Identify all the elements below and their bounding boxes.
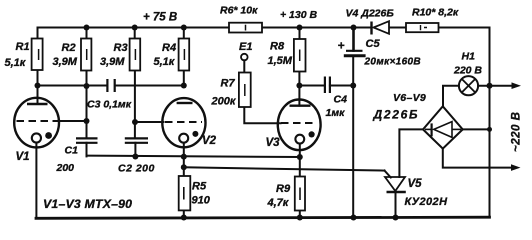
svg-text:Е1: Е1 <box>239 41 252 53</box>
svg-text:Н1: Н1 <box>462 51 476 63</box>
svg-text:4,7к: 4,7к <box>267 197 290 209</box>
wire bridge top to lamp corner <box>443 86 459 107</box>
svg-text:R10* 8,2к: R10* 8,2к <box>412 7 459 19</box>
wire bridge bottom to mains arrow lower <box>443 149 512 168</box>
svg-text:КУ202Н: КУ202Н <box>405 196 449 208</box>
wire R4 top stub <box>183 28 185 39</box>
svg-text:5,1к: 5,1к <box>154 56 176 68</box>
wire R8 top stub <box>299 28 301 40</box>
wire line1 cathode bus <box>87 156 300 157</box>
svg-text:R5: R5 <box>192 181 207 193</box>
wire R5 bottom stub <box>183 210 185 217</box>
wire mid grid bus y=85.5 <box>38 85 184 87</box>
wire R2 bottom lead down to C1 <box>86 71 88 139</box>
tube V2 <box>162 98 205 147</box>
svg-text:3,9М: 3,9М <box>100 56 125 68</box>
svg-text:+ 130 В: + 130 В <box>280 9 317 21</box>
lamp H1 <box>459 76 478 95</box>
svg-text:1,5М: 1,5М <box>268 55 293 67</box>
diode V4 <box>372 21 390 34</box>
diode bridge V6-V9 <box>423 106 463 148</box>
wire C5 bottom line down to rail <box>352 56 354 218</box>
resistor R7 <box>239 73 251 108</box>
wire C1 bottom stub <box>86 143 88 157</box>
resistor R4 <box>179 39 190 71</box>
wire V3 anode stub <box>298 86 300 106</box>
thyristor V5 <box>385 177 406 192</box>
wire V5 gate diagonal <box>385 171 391 178</box>
svg-text:20мк×160В: 20мк×160В <box>364 57 422 68</box>
wire V2 grid lead left <box>135 121 164 123</box>
tube V1 <box>14 98 59 148</box>
svg-text:С3 0,1мк: С3 0,1мк <box>87 99 132 111</box>
mains arrow upper <box>512 82 522 89</box>
svg-text:5,1к: 5,1к <box>5 57 27 69</box>
svg-text:V6–V9: V6–V9 <box>393 92 426 104</box>
svg-text:С5: С5 <box>366 38 381 50</box>
wire C2 bottom stub <box>134 143 136 157</box>
svg-text:V1–V3 МТХ–90: V1–V3 МТХ–90 <box>43 197 132 211</box>
wire V1 grid lead right <box>58 120 87 122</box>
svg-text:V5: V5 <box>408 178 423 190</box>
wire right vertical drop from R10 to bottom rail <box>489 28 491 218</box>
svg-text:R1: R1 <box>16 41 30 53</box>
svg-text:V1: V1 <box>16 151 30 163</box>
wire anode junction to C4 <box>299 85 324 87</box>
svg-text:V2: V2 <box>202 135 217 147</box>
resistor R1 <box>32 39 43 71</box>
resistor R5 <box>179 176 191 210</box>
svg-text:R8: R8 <box>270 41 285 53</box>
svg-text:1мк: 1мк <box>326 107 346 119</box>
wire V5 cathode lead <box>395 192 397 218</box>
wire R4 bottom lead <box>183 71 185 86</box>
wire R2 top stub <box>86 28 88 39</box>
svg-text:С2 200: С2 200 <box>118 163 155 175</box>
wire bridge right to vertical <box>463 128 490 130</box>
resistor R2 <box>81 39 91 71</box>
svg-text:С4: С4 <box>334 94 348 106</box>
resistor R10 horizontal <box>406 23 439 32</box>
svg-text:R3: R3 <box>114 42 128 54</box>
capacitor C3 <box>107 79 114 92</box>
svg-text:+: + <box>338 39 345 53</box>
capacitor C2 <box>125 138 148 142</box>
wire V2 cathode lead to R5 <box>183 142 185 176</box>
wire R9 bottom stub <box>299 211 301 218</box>
wire R7 top stub from E1 <box>243 60 245 72</box>
svg-text:R6* 10к: R6* 10к <box>220 5 258 17</box>
svg-text:Д226Б: Д226Б <box>373 108 420 122</box>
wire bridge left to thyristor anode <box>399 129 423 177</box>
svg-text:910: 910 <box>192 195 211 207</box>
svg-text:R7: R7 <box>221 78 236 90</box>
capacitor C1 <box>76 138 98 142</box>
wire R8 bottom to anode junction <box>298 71 300 86</box>
svg-text:R2: R2 <box>62 42 76 54</box>
resistor R3 <box>130 39 141 71</box>
wire R3 top stub <box>134 28 136 39</box>
svg-text:220 В: 220 В <box>453 65 482 77</box>
tube V3 <box>278 100 321 151</box>
svg-text:~220 В: ~220 В <box>511 112 523 152</box>
svg-text:V3: V3 <box>266 137 281 149</box>
resistor R8 <box>294 39 306 72</box>
mains arrow lower <box>511 164 521 171</box>
capacitor C4 <box>325 77 330 94</box>
svg-text:V4 Д226Б: V4 Д226Б <box>346 8 395 20</box>
wire C4 to C5 line <box>330 85 353 87</box>
svg-text:+ 75 В: + 75 В <box>143 12 177 24</box>
capacitor C5 electrolytic <box>346 50 363 52</box>
wire lamp to mains arrow upper <box>478 85 512 87</box>
wire V3 cathode lead to R9 <box>299 143 301 176</box>
wire C5 top stub <box>352 28 355 51</box>
wire R1 bottom lead into V1 anode <box>37 71 39 104</box>
resistor R6 horizontal <box>229 23 262 33</box>
resistor R9 <box>295 177 305 211</box>
svg-text:R4: R4 <box>162 42 176 54</box>
wire +75V top rail <box>38 27 490 29</box>
wire R7 bottom to V3 grid <box>244 107 280 123</box>
wire R3 bottom lead down to C2 crossing bus <box>134 71 136 139</box>
svg-text:3,9М: 3,9М <box>53 56 78 68</box>
wire line2 gate bus <box>184 167 385 170</box>
wire R1 top stub <box>37 28 39 39</box>
wire V1 cathode lead <box>35 142 37 217</box>
svg-text:200: 200 <box>56 162 75 174</box>
terminal E1 <box>241 54 248 61</box>
svg-text:200к: 200к <box>211 96 237 108</box>
svg-text:С1: С1 <box>65 145 79 157</box>
svg-text:R9: R9 <box>276 183 291 195</box>
wire bottom rail <box>36 217 490 218</box>
